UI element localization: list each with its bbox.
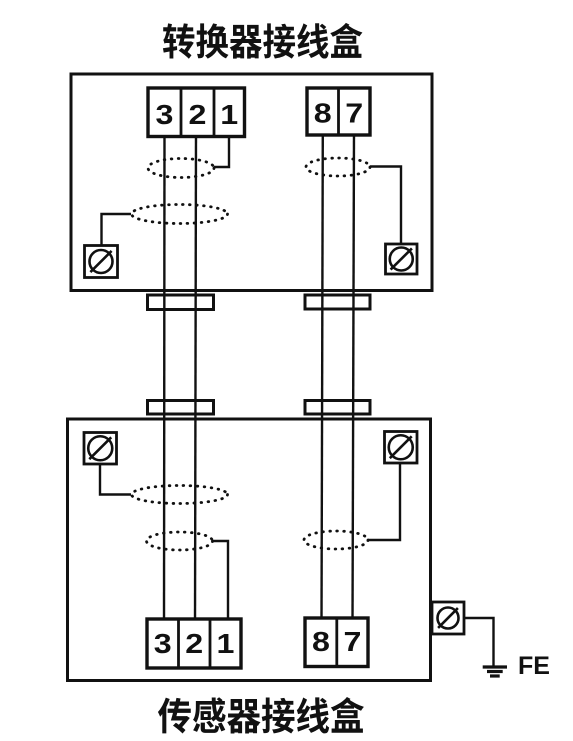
cable gland (top box, left) — [148, 295, 214, 310]
overall shield ellipse (bottom box left) — [132, 486, 228, 504]
label: sensor junction box title 传感器接线盒 — [158, 697, 364, 734]
terminal block 8 7 (converter box) — [307, 88, 370, 135]
terminal block 8 7 (sensor box) — [305, 618, 368, 667]
FE earth ground symbol — [483, 667, 507, 676]
svg-text:2: 2 — [185, 629, 203, 660]
cable gland (bottom box, left) — [148, 401, 214, 415]
svg-text:7: 7 — [343, 627, 361, 658]
shield ellipse around wires 8,7 (bottom box) — [304, 531, 368, 549]
shield ellipse around wires 3,2 (top box) — [148, 159, 214, 178]
screw terminal (top box, bottom-right) — [386, 244, 418, 274]
screw terminal (bottom box, top-right) — [385, 432, 418, 464]
svg-text:7: 7 — [345, 98, 363, 129]
svg-text:3: 3 — [154, 629, 172, 660]
screw terminal (bottom box, top-left) — [84, 433, 117, 465]
wire from terminal 3 (top) to terminal 3 (bottom) — [163, 130, 166, 625]
screw terminal (top box, bottom-left) — [85, 246, 118, 278]
terminal block 3 2 1 (converter box) — [148, 88, 245, 137]
terminal block 3 2 1 (sensor box) — [147, 619, 241, 668]
wire from left shield ellipse to screw terminal (top box) — [102, 214, 132, 246]
wire from shield ellipse to terminal 1 (bottom box) — [212, 541, 228, 625]
shield ellipse around wires 8,7 (top box) — [306, 158, 370, 176]
svg-text:2: 2 — [189, 100, 207, 131]
converter junction box outline — [71, 74, 432, 291]
svg-text:3: 3 — [156, 100, 174, 131]
svg-text:8: 8 — [314, 98, 332, 129]
wire from external screw to FE ground — [464, 618, 494, 666]
wire from right shield ellipse to screw terminal (bottom box) — [368, 463, 400, 540]
wire from terminal 8 (top) to terminal 8 (bottom) — [322, 130, 323, 625]
svg-text:1: 1 — [220, 100, 238, 131]
wire from terminal 2 (top) to terminal 2 (bottom) — [195, 130, 196, 625]
svg-text:8: 8 — [312, 627, 330, 658]
cable gland (top box, right) — [305, 295, 370, 309]
label: converter junction box title 转换器接线盒 — [163, 23, 362, 59]
cable gland (bottom box, right) — [305, 401, 370, 415]
wire from screw terminal to overall shield ellipse (bottom box left) — [100, 464, 131, 495]
overall shield ellipse (top box left) — [132, 205, 228, 224]
wire from right shield ellipse to screw terminal (top box) — [370, 167, 401, 245]
external ground screw terminal on sensor box — [432, 602, 464, 634]
wire from terminal 1 (top) to shield ellipse — [214, 130, 229, 167]
svg-text:FE: FE — [518, 652, 550, 680]
wire from terminal 7 (top) to terminal 7 (bottom) — [353, 130, 355, 625]
sensor junction box outline — [68, 419, 431, 681]
shield ellipse around wires 3,2 (bottom box) — [147, 532, 213, 550]
svg-text:1: 1 — [217, 629, 235, 660]
